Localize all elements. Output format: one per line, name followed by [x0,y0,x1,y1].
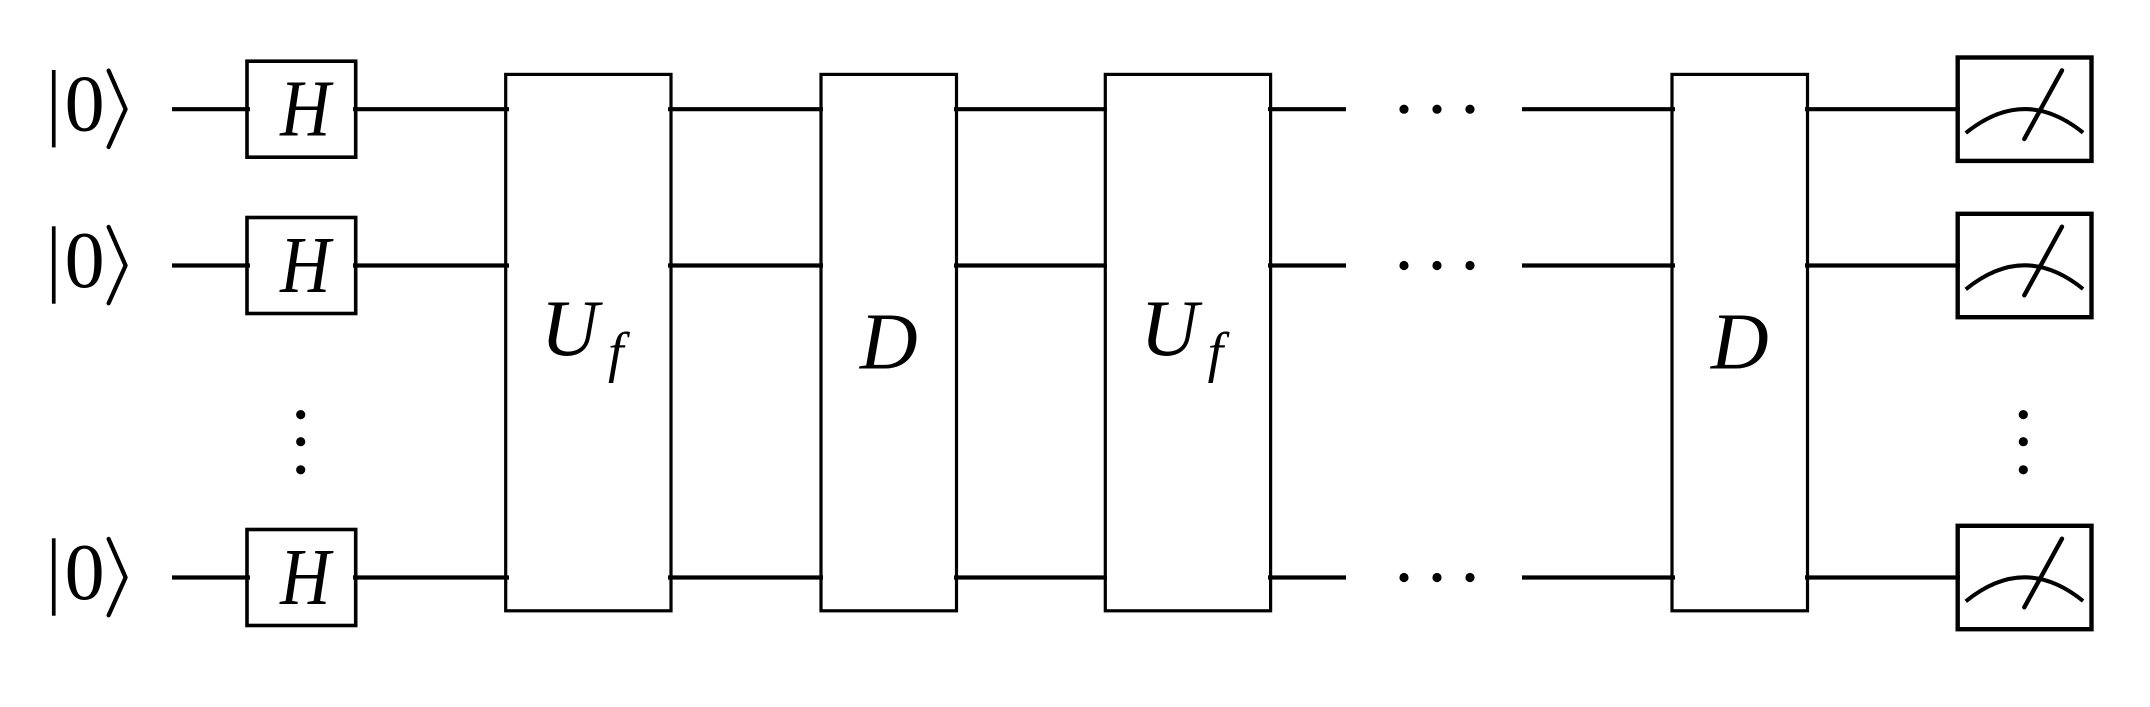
qubit state label |0&gt; for wire q1 [52,61,126,149]
svg-text:0: 0 [65,217,105,305]
wire q3 segment 6 [1522,575,1675,579]
wire q2 segment 5 [1268,263,1346,267]
vertical dots between qubit 2 and qubit n (left, after H column) [296,410,305,474]
wire q2 segment 2 [353,263,509,267]
wire q1 segment 6 [1522,107,1675,111]
wire q2 segment 6 [1522,263,1675,267]
svg-text:H: H [279,221,334,310]
qubit state label |0&gt; for wire q3 [52,529,126,617]
ellipsis dots on wire q1 [1399,105,1474,114]
svg-text:H: H [279,533,334,622]
svg-text:D: D [859,299,918,387]
wire q2 segment 1 [172,263,250,267]
wire q3 segment 3 [668,575,823,579]
wire q3 segment 7 [1805,575,1960,579]
wire q3 segment 2 [353,575,509,579]
wire q3 segment 1 [172,575,250,579]
wire q3 segment 5 [1268,575,1346,579]
oracle gate Uf (first) [506,74,671,610]
qubit state label |0&gt; for wire q2 [52,217,126,305]
wire q1 segment 7 [1805,107,1960,111]
wire q1 segment 2 [353,107,509,111]
svg-text:0: 0 [65,61,105,149]
measurement meter on q2 [1958,214,2092,317]
wire q2 segment 3 [668,263,823,267]
diffusion gate D (first) [821,74,957,610]
ellipsis dots on wire q2 [1399,261,1474,270]
wire q1 segment 3 [668,107,823,111]
wire q1 segment 1 [172,107,250,111]
svg-text:H: H [279,65,334,154]
gate H on q3 [247,530,356,626]
wire q3 segment 4 [954,575,1107,579]
svg-text:D: D [1710,299,1769,387]
ellipsis dots on wire q3 [1399,573,1474,582]
diffusion gate D (second) [1672,74,1808,610]
oracle gate Uf (second) [1105,74,1270,610]
svg-text:0: 0 [65,529,105,617]
measurement meter on q1 [1958,58,2092,161]
gate H on q1 [247,61,356,157]
wire q2 segment 7 [1805,263,1960,267]
wire q1 segment 4 [954,107,1107,111]
wire q1 segment 5 [1268,107,1346,111]
vertical dots between meters (right column) [2019,410,2028,474]
measurement meter on q3 [1958,526,2092,629]
gate H on q2 [247,218,356,314]
wire q2 segment 4 [954,263,1107,267]
